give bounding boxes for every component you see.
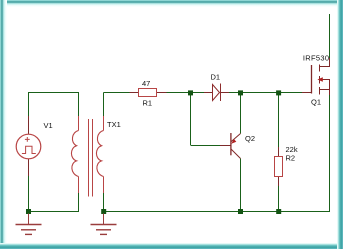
wire Q1 source down to rail corner: [329, 95, 331, 212]
wire ground rail bottom: [104, 211, 331, 213]
wire TX1 secondary to R1: [104, 92, 130, 94]
wire node A down to Q2 base: [191, 94, 221, 146]
wire D1 cathode to node B: [229, 92, 239, 94]
wire V1 to TX1 primary bottom: [28, 211, 79, 213]
svg-text:IRF530: IRF530: [303, 54, 329, 63]
junction gate node (R2 top/Q1 gate): [276, 90, 281, 95]
transformer TX1 core: [89, 119, 93, 197]
pulse source V1: [16, 134, 41, 159]
diode D1: [213, 84, 221, 102]
wire TX1 secondary bottom vertical: [103, 193, 105, 212]
wire gate node down to R2: [278, 94, 280, 147]
pin TX1 secondary top: [103, 116, 105, 131]
ground symbol left: [16, 214, 42, 235]
transformer TX1 secondary winding: [96, 131, 103, 177]
junction node B (D1 cathode/Q2 emitter): [238, 90, 243, 95]
pin R2 top: [278, 147, 280, 157]
junction node A (R1/D1/Q2 base): [188, 90, 193, 95]
pin D1 anode: [204, 92, 213, 94]
ground symbol right: [91, 214, 117, 235]
wire node B down to Q2 emitter: [240, 94, 242, 134]
pin TX1 secondary bottom: [103, 177, 105, 194]
pin R2 bottom: [278, 177, 280, 187]
transistor Q2 arrow: [231, 139, 236, 144]
junction R2 bottom rail: [276, 209, 281, 214]
pin R1 left: [130, 92, 140, 94]
pin Q1 drain: [329, 58, 331, 67]
resistor R1: [139, 89, 157, 97]
svg-text:47: 47: [142, 79, 150, 88]
wire R2 down to rail: [278, 186, 280, 212]
wire node B to gate node: [243, 92, 303, 94]
wire Q1 drain vertical: [329, 14, 331, 58]
transformer TX1 primary winding: [71, 131, 78, 177]
MOSFET Q1 arrow: [317, 77, 322, 81]
pin TX1 primary bottom: [78, 177, 80, 194]
pin TX1 primary top: [78, 116, 80, 131]
svg-text:TX1: TX1: [107, 120, 121, 129]
wire TX1 primary top vertical: [78, 93, 80, 117]
resistor R2: [275, 157, 283, 177]
wire R1 to node A: [167, 92, 190, 94]
junction V1 ground: [26, 209, 31, 214]
pin R1 right: [157, 92, 167, 94]
svg-text:Q2: Q2: [245, 134, 255, 143]
wire top-left horizontal V1 to TX1: [28, 92, 79, 94]
wire Q2 collector down to rail: [240, 159, 242, 212]
wire TX1 secondary top vertical: [103, 93, 105, 117]
pin Q1 gate: [302, 92, 312, 94]
junction TX1 ground: [101, 209, 106, 214]
wire node A to D1 anode: [193, 92, 205, 94]
wire V1 top vertical: [28, 93, 30, 117]
pin Q2 base: [220, 145, 231, 147]
MOSFET Q1: [312, 65, 331, 96]
wire TX1 primary bottom vertical: [78, 193, 80, 212]
junction Q2 collector rail: [238, 209, 243, 214]
wire V1 bottom vertical: [28, 176, 30, 212]
svg-text:D1: D1: [211, 72, 221, 81]
svg-text:Q1: Q1: [311, 97, 321, 106]
pin D1 cathode: [221, 92, 230, 94]
pin V1 top: [28, 116, 30, 135]
svg-text:V1: V1: [44, 121, 53, 130]
svg-text:R2: R2: [286, 153, 296, 162]
transistor Q2: [231, 133, 241, 159]
svg-text:R1: R1: [143, 98, 153, 107]
pin V1 bottom: [28, 159, 30, 176]
